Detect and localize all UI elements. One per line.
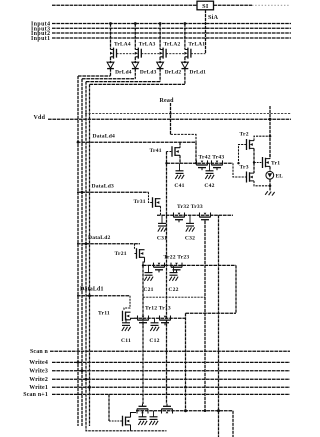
svg-text:Write1: Write1 [29, 385, 48, 391]
wire DataLd2 to Tr21 gate [135, 244, 137, 254]
wire chain row1 [134, 317, 186, 319]
transistor Tr12 [138, 316, 149, 320]
wire Tr11 next source down [130, 425, 132, 431]
svg-text:TrLA1: TrLA1 [188, 42, 205, 48]
svg-text:EL: EL [276, 174, 284, 180]
wire return line 3 [82, 78, 135, 80]
wire chain row3 [157, 214, 233, 216]
wire cross link row2 [143, 296, 205, 298]
wire Tr21 source down [143, 257, 145, 265]
diode DrLd4 [107, 62, 114, 68]
wire SiA vertical from SI box [205, 10, 207, 54]
node junction chain4 datald4 [195, 162, 197, 164]
wire vertical drop TrLA1 [184, 24, 186, 50]
wire gate lead TrLA3 [141, 53, 160, 55]
wire DrLd1 to return line [184, 69, 186, 85]
wire Write3 line [52, 370, 290, 372]
node junction DataLd4 bundle [77, 141, 80, 144]
wire Input2 line [52, 32, 291, 34]
wire Input4 line [52, 23, 291, 25]
wire Tr31 source down [160, 206, 162, 215]
capacitor C12 next row [153, 411, 155, 417]
wire return line 2 [86, 81, 160, 83]
svg-text:SiA: SiA [208, 14, 219, 21]
svg-text:Tr22 Tr23: Tr22 Tr23 [164, 254, 190, 260]
wire Write2 line [52, 378, 290, 380]
wire read jog [171, 134, 197, 142]
wire long vertical E (x185.5) [185, 313, 187, 410]
transistor Tr13 next row [162, 409, 173, 413]
svg-text:TrLA4: TrLA4 [114, 42, 131, 48]
svg-text:C21: C21 [143, 287, 153, 293]
svg-text:Tr12 Tr13: Tr12 Tr13 [145, 305, 171, 311]
transistor Tr42 [197, 160, 208, 164]
node junction write1 crossing [184, 386, 187, 389]
wire gate lead TrLA2 [166, 53, 185, 55]
wire DataLd1 line [77, 295, 130, 297]
svg-text:Scan n+1: Scan n+1 [23, 392, 48, 398]
wire Tr1 source to EL [269, 166, 271, 171]
wire DataLd4 line [77, 141, 196, 143]
wire Tr3 drain up [253, 163, 255, 174]
svg-text:C12: C12 [149, 338, 159, 344]
wire Vdd drop vertical [269, 106, 271, 159]
wire gate lead TrLA1 [191, 53, 206, 55]
capacitor C12 [154, 318, 156, 323]
transistor Tr11 next row [123, 416, 126, 427]
transistor Tr43 [212, 160, 223, 164]
svg-text:Tr42 Tr43: Tr42 Tr43 [199, 154, 225, 160]
wire long vertical A (x166.5) [166, 152, 168, 405]
node junction EL bottom [269, 185, 272, 188]
diode DrLd1 [182, 62, 189, 68]
node junction Input4 x135.3 [134, 22, 137, 25]
wire long vertical B (x205) [204, 221, 206, 411]
node junction Input4 x160.1 [159, 22, 162, 25]
node junction Tr1 gate [253, 161, 255, 163]
svg-text:Scan n: Scan n [30, 349, 49, 355]
node junction Write2 bundle [85, 378, 88, 381]
wire Scan n+1 line [52, 393, 290, 395]
wire TrLA4 to diode [110, 57, 112, 62]
svg-text:Write2: Write2 [29, 377, 48, 383]
node junction Input4 x184.9 [184, 22, 187, 25]
wire Read line [85, 113, 291, 115]
svg-text:Tr2: Tr2 [240, 131, 249, 137]
wire Tr3 source down [254, 181, 270, 186]
node junction DataLd3 bundle [81, 191, 84, 194]
node junction Vdd drop [269, 118, 272, 121]
transistor Tr22 [154, 263, 165, 267]
wire Scan n line [50, 350, 290, 352]
svg-text:Tr21: Tr21 [115, 251, 127, 257]
wire chain row2 [143, 264, 236, 266]
wire bottom right corner down [232, 411, 234, 437]
svg-text:Tr32 Tr33: Tr32 Tr33 [177, 204, 203, 210]
wire TrLA2 to diode [159, 57, 161, 62]
wire bottom tr top corner [131, 413, 137, 418]
wire TrLA3 to diode [134, 57, 136, 62]
wire gate lead TrLA4 [117, 53, 136, 55]
wire Tr2 source down [253, 148, 255, 162]
wire bundle vertical 1 [89, 84, 91, 426]
node junction read [169, 112, 171, 114]
node junction DataLd2 bundle [85, 242, 88, 245]
wire TrLA1 to diode [184, 57, 186, 62]
wire return line 4 [78, 75, 111, 77]
node junction Tr2 gate chain [237, 162, 239, 164]
wire Tr1 gate [254, 162, 263, 164]
wire DataLd3 to Tr31 gate [149, 192, 153, 202]
node junction Input4 x110.5 [109, 22, 112, 25]
wire Tr2 gate down [239, 145, 247, 164]
svg-text:DrLd4: DrLd4 [115, 69, 132, 75]
diode EL [266, 171, 274, 179]
wire DataLd4 end vertical [195, 142, 197, 163]
wire scan n+1 drop [108, 394, 110, 421]
wire bundle vertical 2 [85, 82, 87, 426]
node junction chain2 left [142, 264, 144, 266]
wire vertical drop TrLA4 [110, 24, 112, 50]
capacitor C42 [209, 163, 211, 171]
wire DataLd1 to Tr11 gate [124, 296, 130, 311]
node junction Write4 bundle [77, 361, 80, 364]
wire DrLd3 to return line [134, 69, 136, 79]
wire EL to ground [269, 179, 271, 191]
wire Tr41 gate [167, 151, 173, 153]
node junction bottom chain2 [204, 409, 207, 412]
wire chain2 right corner down [235, 265, 237, 313]
svg-text:Tr41: Tr41 [150, 148, 162, 154]
wire Input3 line [52, 27, 291, 29]
capacitor C11 [125, 318, 127, 323]
svg-text:Tr1: Tr1 [271, 160, 280, 166]
svg-text:C41: C41 [174, 183, 184, 189]
svg-text:C32: C32 [185, 235, 195, 241]
transistor Tr12 next row [137, 409, 148, 413]
wire DrLd2 to return line [159, 69, 161, 82]
block SI [197, 1, 214, 10]
svg-text:C31: C31 [157, 235, 167, 241]
wire gate link bottom [109, 420, 123, 422]
capacitor C32 [189, 215, 191, 223]
svg-text:Write3: Write3 [29, 369, 48, 375]
capacitor C41 [179, 163, 181, 171]
wire Vdd line [48, 118, 291, 120]
svg-text:C22: C22 [168, 287, 178, 293]
wire Tr2 drain to Vdd drop [254, 136, 270, 140]
wire chain row1 upper [186, 312, 237, 314]
wire Input1 line [52, 37, 291, 39]
wire bundle bottom corner [86, 426, 167, 431]
capacitor C11 next row [142, 411, 144, 417]
wire Read vertical [170, 103, 172, 134]
wire long vertical D (x143) [142, 265, 144, 404]
wire vertical drop TrLA3 [134, 24, 136, 50]
svg-text:Tr31: Tr31 [134, 199, 146, 205]
wire bundle vertical 4 [77, 76, 79, 426]
diode DrLd2 [157, 62, 164, 68]
svg-text:Write4: Write4 [29, 360, 48, 366]
node junction Tr2 drain [269, 135, 272, 138]
svg-text:DrLd3: DrLd3 [140, 69, 157, 75]
wire Write4 line [52, 361, 290, 363]
svg-text:C11: C11 [121, 338, 131, 344]
wire Tr41 drain up [179, 142, 181, 147]
capacitor C31 [161, 215, 163, 223]
svg-text:TrLA2: TrLA2 [164, 42, 181, 48]
svg-text:Read: Read [160, 98, 175, 104]
node junction chain4 left [165, 162, 167, 164]
wire vertical drop TrLA2 [159, 24, 161, 50]
wire DrLd4 to return line [110, 69, 112, 76]
diode DrLd3 [132, 62, 139, 68]
wire Tr11 source down [131, 318, 135, 320]
svg-text:Vdd: Vdd [34, 115, 46, 121]
svg-text:Tr3: Tr3 [240, 164, 249, 170]
svg-text:SI: SI [202, 3, 209, 10]
capacitor C21 [148, 265, 150, 272]
wire top horizontal to SI box [52, 4, 197, 6]
svg-text:DrLd1: DrLd1 [190, 69, 207, 75]
node junction Write3 bundle [81, 369, 84, 372]
svg-text:Tr11: Tr11 [98, 311, 110, 317]
wire chain row4 [167, 162, 234, 164]
svg-text:C42: C42 [204, 183, 214, 189]
svg-text:DataLd1: DataLd1 [80, 287, 104, 293]
node junction bottom chain3 [184, 409, 187, 412]
wire bundle vertical 3 [81, 79, 83, 426]
transistor Tr33 [200, 213, 211, 217]
wire Tr1 drain up [269, 154, 271, 159]
wire DataLd2 line [77, 243, 140, 245]
ground under EL [265, 191, 274, 195]
wire long vertical C (x218.5) [218, 215, 220, 437]
svg-text:Input1: Input1 [31, 36, 50, 42]
wire DataLd3 line [77, 191, 149, 193]
transistor Tr13 [160, 316, 171, 320]
svg-text:TrLA3: TrLA3 [139, 42, 156, 48]
wire return line 1 [90, 83, 185, 85]
svg-text:DrLd2: DrLd2 [165, 69, 182, 75]
wire SI box to right [214, 4, 253, 6]
wire Write1 line [52, 386, 290, 388]
node junction bottom chain [217, 409, 220, 412]
wire Tr41 source down [179, 155, 181, 163]
node junction DataLd1 bundle [88, 294, 91, 297]
capacitor C22 [173, 265, 175, 272]
svg-text:DataLd2: DataLd2 [88, 235, 111, 241]
transistor Tr23 [171, 263, 182, 267]
svg-text:DataLd4: DataLd4 [93, 133, 116, 139]
wire chain4 to Tr3 gate [233, 163, 247, 177]
svg-text:DataLd3: DataLd3 [92, 183, 115, 189]
transistor Tr32 [174, 213, 185, 217]
wire chain bottom row [136, 410, 233, 412]
node junction Write1 bundle [88, 386, 91, 389]
